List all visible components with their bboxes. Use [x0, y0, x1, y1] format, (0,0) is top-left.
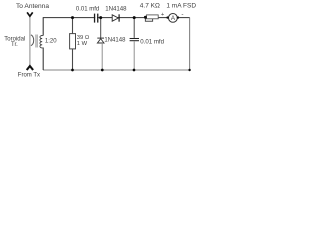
svg-text:4.7 KΩ: 4.7 KΩ	[140, 3, 160, 10]
svg-text:Tr.: Tr.	[11, 42, 18, 48]
svg-text:1 W: 1 W	[77, 41, 88, 47]
svg-text:1N4148: 1N4148	[105, 5, 127, 12]
svg-text:0.01 mfd: 0.01 mfd	[76, 6, 99, 12]
svg-text:To Antenna: To Antenna	[16, 3, 49, 10]
svg-text:-: -	[181, 11, 183, 18]
svg-text:1N4148: 1N4148	[104, 38, 126, 44]
svg-text:1 mA FSD: 1 mA FSD	[166, 3, 196, 10]
svg-text:0.01 mfd: 0.01 mfd	[140, 38, 164, 45]
svg-text:From Tx: From Tx	[18, 73, 40, 79]
svg-text:1:20: 1:20	[45, 39, 57, 45]
